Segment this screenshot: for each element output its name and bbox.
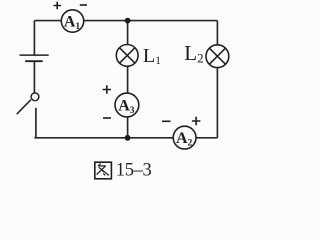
svg-text:15–3: 15–3 — [116, 161, 152, 181]
